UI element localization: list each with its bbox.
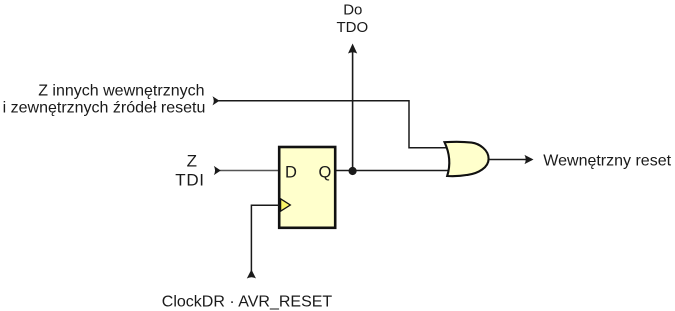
arrowhead ClockDR (pointing up) <box>247 270 256 279</box>
arrowhead TDI input <box>214 166 221 175</box>
svg-text:Z innych wewnętrznych: Z innych wewnętrznych <box>38 83 204 100</box>
wire junction to TDO <box>352 51 354 171</box>
wire Z TDI to D input <box>220 170 279 172</box>
OR gate U2 <box>445 142 489 176</box>
wire OR output to Wewnetrzny reset <box>489 159 532 161</box>
svg-text:D: D <box>285 163 297 181</box>
D flip-flop U1 <box>279 147 335 228</box>
svg-text:Q: Q <box>319 163 332 181</box>
svg-text:TDI: TDI <box>175 170 204 189</box>
junction node <box>349 167 357 175</box>
arrowhead output <box>525 155 534 164</box>
arrowhead reset-sources input <box>213 96 220 105</box>
wire ClockDR to clock input <box>251 205 279 277</box>
svg-text:Wewnętrzny reset: Wewnętrzny reset <box>543 152 671 169</box>
svg-text:ClockDR · AVR_RESET: ClockDR · AVR_RESET <box>162 293 333 310</box>
svg-text:Z: Z <box>187 152 197 171</box>
svg-text:Do: Do <box>343 2 362 19</box>
svg-text:TDO: TDO <box>336 19 368 36</box>
wire reset-sources to OR gate <box>219 101 449 148</box>
svg-text:i zewnętrznych źródeł resetu: i zewnętrznych źródeł resetu <box>3 100 206 117</box>
clock input triangle <box>281 199 291 211</box>
wire Q output to OR gate <box>337 170 450 172</box>
arrowhead to TDO <box>348 44 357 54</box>
